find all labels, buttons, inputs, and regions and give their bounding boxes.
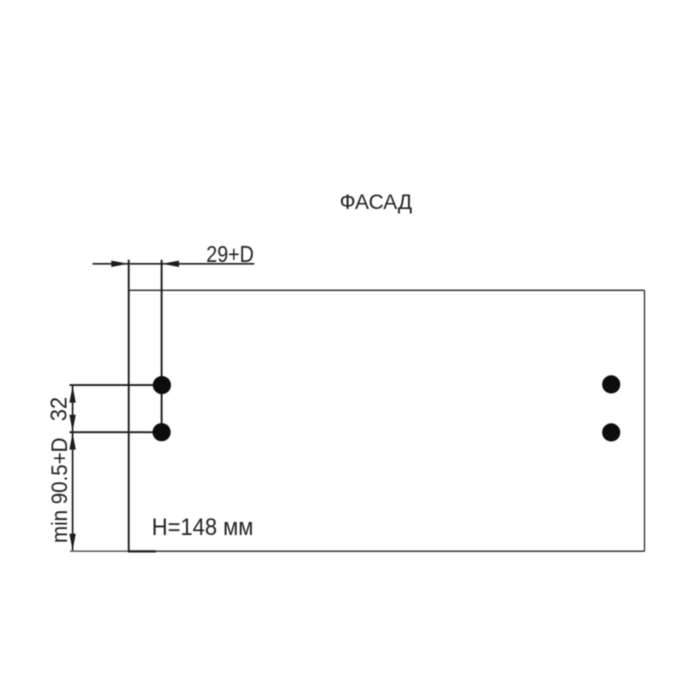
dimension line min 90.5+D (72, 433, 74, 550)
hole line upper (70, 384, 163, 386)
dot hole left upper (153, 376, 171, 394)
arrow up min (69, 433, 75, 450)
svg-text:ФАСАД: ФАСАД (340, 190, 413, 214)
dot hole right lower (602, 423, 620, 441)
bottom extension line (70, 550, 129, 552)
hole line lower (70, 431, 163, 433)
bottom thick segment (128, 550, 156, 552)
extension line B (29+D right extent) (161, 260, 163, 432)
svg-text:H=148 мм: H=148 мм (152, 515, 254, 541)
left edge / extension line A (128, 260, 130, 552)
dot hole right upper (602, 375, 620, 393)
panel outline rectangle (129, 290, 645, 551)
svg-text:29+D: 29+D (206, 241, 254, 267)
arrow down min (69, 534, 75, 551)
arrow left at B (162, 261, 179, 267)
arrow up 32 (69, 386, 75, 403)
dimension line 29+D (93, 263, 255, 265)
arrow down 32 (69, 415, 75, 432)
arrow right at A (111, 261, 128, 267)
svg-text:min 90.5+D: min 90.5+D (47, 438, 72, 544)
dot hole left lower (153, 423, 171, 441)
dimension line 32 (72, 386, 74, 431)
svg-text:32: 32 (45, 397, 71, 422)
